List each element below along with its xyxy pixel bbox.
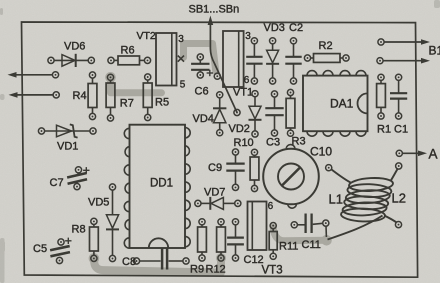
solder point x at VT2 xyxy=(178,56,184,62)
resistor R6 xyxy=(108,56,151,65)
IC DD1 xyxy=(124,125,190,249)
diode VD3 xyxy=(266,38,279,84)
capacitor C1 xyxy=(390,74,407,119)
plus sign C5 xyxy=(65,240,71,242)
resistor R9 xyxy=(198,219,207,261)
output arrow left top xyxy=(8,72,59,78)
diode VD7 xyxy=(195,197,241,210)
svg-text:L2: L2 xyxy=(392,191,406,206)
svg-text:C7: C7 xyxy=(50,177,64,189)
output arrow A xyxy=(396,150,427,156)
output arrows B1 xyxy=(377,39,430,64)
capacitor C4 (unlabeled) xyxy=(246,38,262,84)
diode VD4 xyxy=(213,92,226,136)
svg-text:C8: C8 xyxy=(122,256,136,268)
resistor R11 xyxy=(269,223,277,260)
resistor R7 xyxy=(106,74,115,121)
resistor R1 xyxy=(377,74,386,119)
capacitor C3 xyxy=(265,91,283,136)
svg-text:VT2: VT2 xyxy=(137,30,156,42)
svg-text:DD1: DD1 xyxy=(150,178,173,190)
svg-text:C9: C9 xyxy=(208,162,222,174)
coil lead top-right to pad xyxy=(396,163,402,169)
svg-text:VD3: VD3 xyxy=(264,22,285,34)
svg-text:6: 6 xyxy=(268,201,274,212)
diode VD2 xyxy=(249,91,262,137)
resistor R12 xyxy=(217,219,226,261)
svg-text:VT3: VT3 xyxy=(262,265,283,277)
coil lead top-left to pad xyxy=(326,165,332,171)
capacitor C11 xyxy=(291,214,329,234)
resistor R4 xyxy=(88,72,97,120)
IC DA1 xyxy=(303,71,368,137)
svg-text:C11: C11 xyxy=(302,239,321,251)
svg-text:R12: R12 xyxy=(206,264,226,276)
diode VD5 xyxy=(106,184,119,262)
svg-text:3: 3 xyxy=(245,31,251,42)
svg-text:3: 3 xyxy=(178,34,184,45)
svg-text:B1: B1 xyxy=(429,44,440,58)
wire trace VT2 pin3 to VT1 area (gray) xyxy=(184,44,216,72)
svg-text:R5: R5 xyxy=(155,97,169,109)
svg-text:VT1: VT1 xyxy=(233,87,253,99)
svg-text:VD6: VD6 xyxy=(64,41,85,53)
capacitor C12 xyxy=(227,219,244,261)
resistor R10 xyxy=(250,149,259,191)
svg-text:R10: R10 xyxy=(234,137,254,149)
transistor VT2 xyxy=(156,33,177,86)
wire to buttons SB with up arrow xyxy=(210,24,237,113)
svg-text:A: A xyxy=(429,147,438,162)
svg-text:R6: R6 xyxy=(121,45,135,57)
svg-text:VD5: VD5 xyxy=(88,197,109,209)
wire trace bottom ground bus (gray) xyxy=(89,253,100,264)
svg-text:6: 6 xyxy=(244,75,250,86)
coil lead bottom-right to pad xyxy=(395,222,401,228)
svg-text:VD7: VD7 xyxy=(204,187,225,199)
svg-text:C2: C2 xyxy=(289,22,303,34)
svg-text:DA1: DA1 xyxy=(330,97,354,111)
resistor R5 xyxy=(143,74,152,121)
coil lead from gray pad xyxy=(328,216,383,240)
svg-text:C3: C3 xyxy=(266,137,280,149)
plus sign C7 xyxy=(83,169,89,171)
gray halo on R7 top pad xyxy=(105,72,116,83)
svg-text:L1: L1 xyxy=(329,192,343,207)
node pad near VT1 xyxy=(214,73,220,79)
transistor VT1 xyxy=(223,31,244,87)
diode VD1 (zener) xyxy=(38,124,96,137)
diode VD6 xyxy=(48,54,95,67)
svg-text:C10: C10 xyxy=(310,145,332,159)
svg-text:SB1...SBn: SB1...SBn xyxy=(189,4,240,16)
svg-text:VD2: VD2 xyxy=(229,123,250,135)
plus sign C6 xyxy=(207,72,213,74)
svg-text:R2: R2 xyxy=(319,40,333,52)
transistor VT3 xyxy=(248,202,267,251)
resistor R8 xyxy=(90,218,99,261)
svg-text:R11: R11 xyxy=(279,241,298,253)
node SB wire pad xyxy=(234,109,240,115)
svg-text:C6: C6 xyxy=(195,86,209,98)
inductor coil L1/L2 xyxy=(341,177,394,222)
svg-text:VD4: VD4 xyxy=(193,113,214,125)
capacitor C5 (electrolytic) xyxy=(49,239,71,264)
wire trace R11 to coil pad (gray) xyxy=(321,235,332,246)
svg-text:VD1: VD1 xyxy=(57,141,78,153)
output arrow left bottom xyxy=(9,92,60,98)
svg-text:5: 5 xyxy=(180,79,186,90)
trimmer capacitor C10 xyxy=(263,145,319,209)
resistor R3 xyxy=(286,89,295,136)
svg-text:R4: R4 xyxy=(73,90,87,102)
resistor R2 xyxy=(304,54,349,63)
capacitor C9 xyxy=(226,149,244,191)
svg-text:R9: R9 xyxy=(190,264,204,276)
svg-text:C1: C1 xyxy=(394,124,408,136)
capacitor C6 xyxy=(191,54,209,78)
svg-text:R8: R8 xyxy=(72,224,86,236)
capacitor C2 xyxy=(285,38,301,84)
svg-text:R1: R1 xyxy=(377,124,391,136)
wire trace R7 top to VT2 bottom (gray) xyxy=(111,78,162,93)
capacitor C8 xyxy=(133,248,189,270)
svg-text:C5: C5 xyxy=(33,243,47,255)
svg-text:R7: R7 xyxy=(120,98,134,110)
capacitor C7 (electrolytic) xyxy=(66,167,88,190)
